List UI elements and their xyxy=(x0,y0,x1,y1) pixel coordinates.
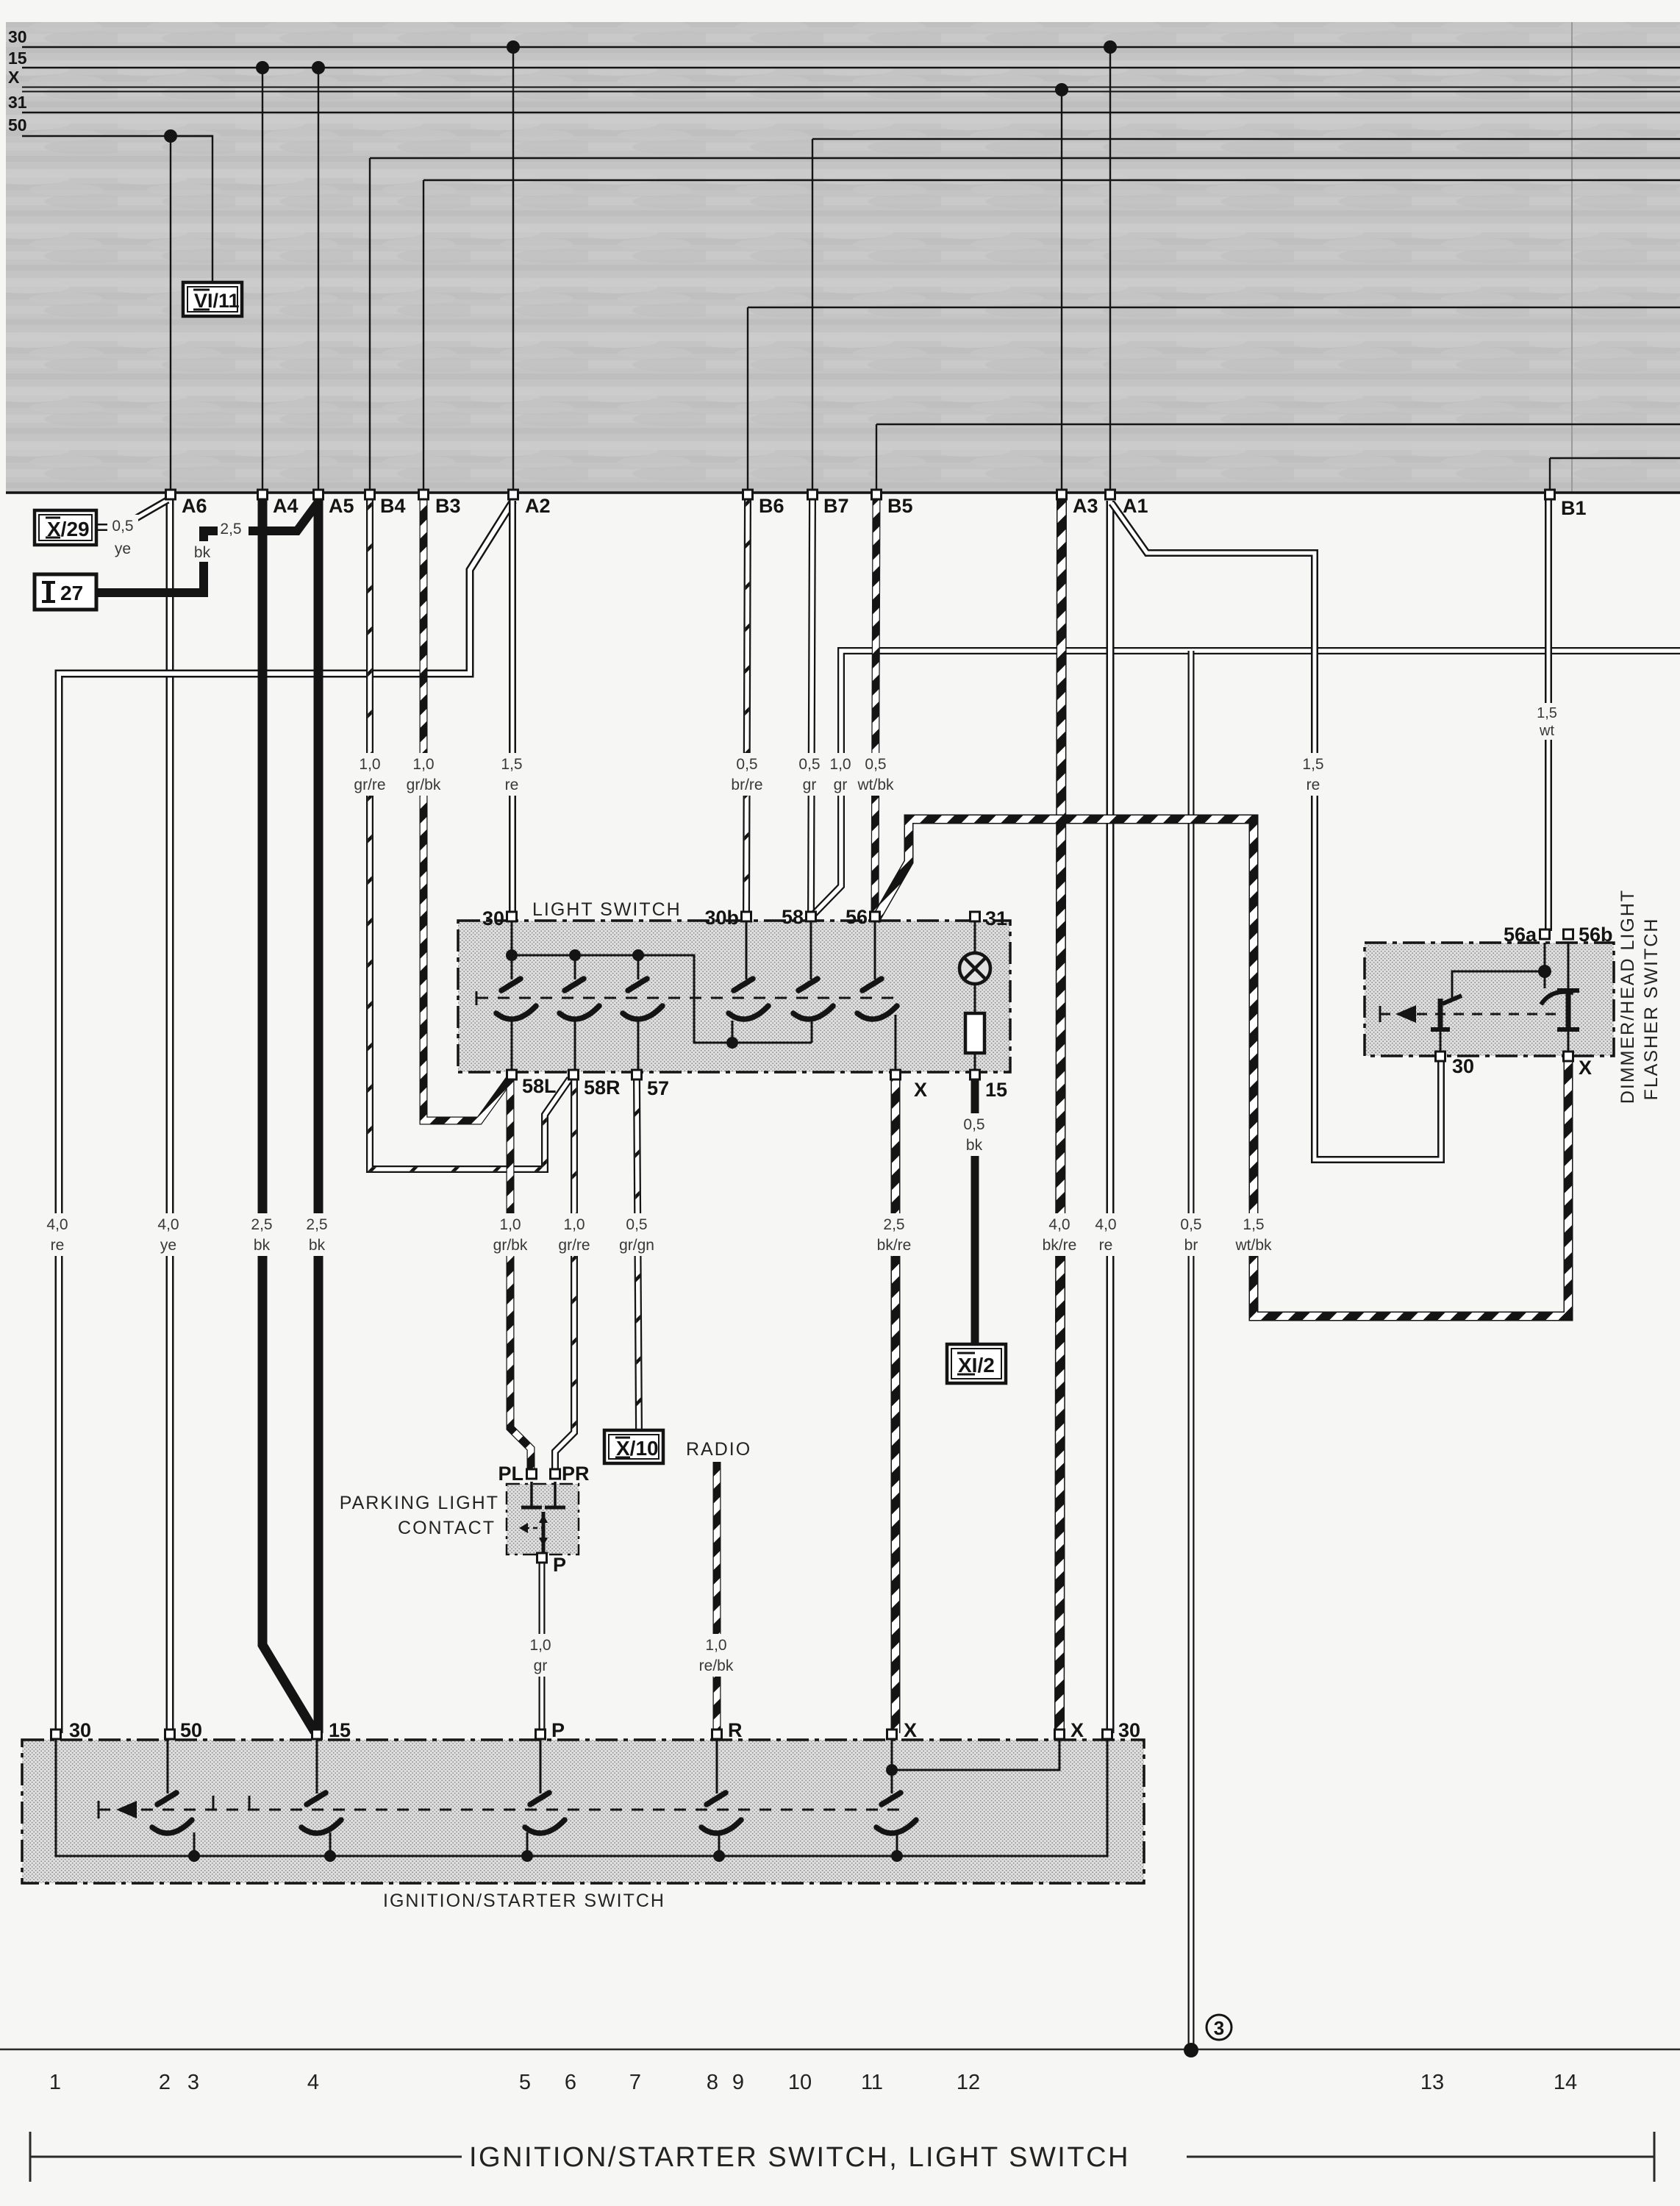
terminal B4 xyxy=(365,490,375,499)
svg-text:2: 2 xyxy=(159,2071,171,2094)
terminal IGN 30b xyxy=(1103,1730,1112,1739)
svg-text:31: 31 xyxy=(8,93,27,112)
svg-text:3: 3 xyxy=(1214,2017,1224,2039)
svg-text:31: 31 xyxy=(985,907,1007,929)
svg-text:bk: bk xyxy=(254,1237,271,1254)
svg-text:15: 15 xyxy=(985,1079,1007,1101)
wire 1,5 wt B1 to 56a xyxy=(1545,499,1552,931)
ballast resistor xyxy=(965,1013,984,1053)
svg-text:re: re xyxy=(1099,1237,1113,1254)
ignition/starter switch box xyxy=(22,1740,1144,1883)
svg-text:3: 3 xyxy=(187,2071,199,2094)
svg-text:gr: gr xyxy=(534,1657,548,1674)
terminal dimmer 56b xyxy=(1564,929,1573,939)
svg-text:ye: ye xyxy=(160,1237,176,1254)
svg-text:bk/re: bk/re xyxy=(1043,1237,1077,1254)
svg-text:bk: bk xyxy=(966,1137,983,1154)
contact stubs top xyxy=(511,955,513,979)
wire 1,0 re/bk RADIO to ignition R xyxy=(713,1462,721,1733)
svg-text:B3: B3 xyxy=(435,495,461,517)
wire 2,5 bk I/27 to A5 xyxy=(96,503,318,593)
wire 2,5 bk A5 to ignition 15 xyxy=(314,499,324,1733)
wire 2,5 bk/re light switch X to ignition X xyxy=(891,1079,901,1733)
wire 1,0 gr/bk B3 to 58L xyxy=(423,499,510,1121)
svg-text:1,0: 1,0 xyxy=(499,1216,521,1233)
svg-text:15: 15 xyxy=(329,1719,351,1741)
connector box X/29 xyxy=(35,510,96,545)
wire 4,0 bk/re A3 to ignition X xyxy=(1059,499,1062,1733)
wire 1,5 wt/bk 56 to dimmer X xyxy=(875,819,1568,1316)
wire 0,5 bk light switch 15 to XI/2 xyxy=(971,1079,979,1344)
wire 1,0 gr feeder to 58 xyxy=(814,651,1680,914)
svg-text:1,0: 1,0 xyxy=(563,1216,585,1233)
terminal dimmer 56a xyxy=(1540,929,1550,939)
svg-text:11: 11 xyxy=(861,2071,883,2094)
connector box XI/2 xyxy=(947,1344,1006,1383)
svg-text:A4: A4 xyxy=(273,495,299,517)
wire B4 drop xyxy=(369,158,371,491)
svg-text:56b: 56b xyxy=(1579,924,1613,946)
svg-text:13: 13 xyxy=(1420,2071,1444,2094)
line B7 feeder xyxy=(812,138,1680,140)
terminal A6 xyxy=(166,490,176,499)
svg-text:PL: PL xyxy=(498,1463,523,1485)
svg-text:4,0: 4,0 xyxy=(157,1216,179,1233)
svg-text:9: 9 xyxy=(732,2071,744,2094)
wire 0,5 br to ground point 3 xyxy=(1188,651,1195,2049)
svg-text:X: X xyxy=(914,1079,927,1101)
light switch box xyxy=(458,921,1010,1072)
junction IGN bus / swP xyxy=(521,1850,533,1862)
svg-text:gr: gr xyxy=(834,777,848,793)
svg-text:br/re: br/re xyxy=(731,777,762,793)
svg-text:4,0: 4,0 xyxy=(46,1216,68,1233)
wire A4 drop from bus 15 xyxy=(262,68,263,491)
connector box X/10 xyxy=(604,1430,663,1463)
wire 1,0 gr/bk 58L to PL xyxy=(510,1079,531,1473)
svg-text:57: 57 xyxy=(647,1077,669,1099)
svg-text:bk/re: bk/re xyxy=(877,1237,912,1254)
fuse box I 27 xyxy=(35,574,96,610)
terminal LS 56 xyxy=(871,912,880,921)
svg-text:0,5: 0,5 xyxy=(865,756,886,773)
wire B1 drop xyxy=(1549,458,1551,491)
svg-text:P: P xyxy=(553,1554,566,1576)
title bracket xyxy=(29,2132,32,2182)
wire 0,5 gr/gn 57 to X/10 xyxy=(637,1079,639,1429)
wire B3 drop xyxy=(423,180,424,491)
svg-text:A5: A5 xyxy=(329,495,354,517)
svg-text:gr: gr xyxy=(803,777,817,793)
wire 2,5 bk A4 to ignition 15 xyxy=(262,499,315,1732)
svg-text:8: 8 xyxy=(707,2071,718,2094)
connector box VI/11 xyxy=(183,282,242,316)
svg-text:PR: PR xyxy=(562,1463,590,1485)
dimmer/head light flasher switch box xyxy=(1365,943,1614,1056)
svg-text:PARKING LIGHT: PARKING LIGHT xyxy=(340,1493,499,1513)
terminal LS 58 xyxy=(807,912,816,921)
svg-text:6: 6 xyxy=(565,2071,576,2094)
wire 0,5 wt/bk B5 to 56 xyxy=(875,499,876,913)
wire 0,5 gr B7 to 58 xyxy=(811,499,812,913)
continuation marker 3 xyxy=(1207,2015,1232,2040)
svg-text:ye: ye xyxy=(115,540,131,557)
terminal B7 xyxy=(808,490,818,499)
terminal B3 xyxy=(419,490,429,499)
wire 1,0 gr P to ignition P xyxy=(539,1563,546,1733)
terminal A4 xyxy=(258,490,268,499)
svg-text:50: 50 xyxy=(8,115,27,135)
wire 0,5 br/re B6 to 30b xyxy=(746,499,748,913)
line B3 feeder xyxy=(423,179,1680,181)
svg-text:re: re xyxy=(505,777,519,793)
svg-text:27: 27 xyxy=(60,582,83,604)
svg-text:X/10: X/10 xyxy=(616,1437,659,1460)
svg-text:A1: A1 xyxy=(1123,495,1148,517)
junction dimmer 56a node xyxy=(1538,965,1551,978)
svg-text:56: 56 xyxy=(846,906,868,928)
wire 4,0 re A2 to ignition 30 xyxy=(59,501,513,1733)
band bottom edge line xyxy=(6,491,1680,494)
svg-text:4: 4 xyxy=(307,2071,319,2094)
svg-text:R: R xyxy=(728,1719,743,1741)
svg-text:1: 1 xyxy=(49,2071,61,2094)
terminal B5 xyxy=(872,490,882,499)
svg-text:56a: 56a xyxy=(1504,924,1537,946)
contact stubs xyxy=(167,1740,169,1793)
svg-text:gr/bk: gr/bk xyxy=(493,1237,528,1254)
wire A1 drop from bus 30 xyxy=(1109,47,1111,491)
svg-text:B7: B7 xyxy=(823,495,849,517)
svg-text:30: 30 xyxy=(1452,1055,1474,1077)
svg-text:X: X xyxy=(8,68,20,87)
svg-text:15: 15 xyxy=(8,49,27,68)
svg-text:1,5: 1,5 xyxy=(1537,705,1557,721)
terminal LS 15 xyxy=(971,1070,980,1079)
dimmer internal wiring xyxy=(1452,943,1545,998)
svg-text:4,0: 4,0 xyxy=(1095,1216,1116,1233)
svg-text:0,5: 0,5 xyxy=(626,1216,647,1233)
junction LS bus / sw2 xyxy=(569,949,581,961)
contact stubs bottom xyxy=(511,1021,513,1071)
svg-text:wt/bk: wt/bk xyxy=(857,777,894,793)
svg-text:1,5: 1,5 xyxy=(1302,756,1323,773)
svg-text:1,0: 1,0 xyxy=(412,756,434,773)
terminal LS 58L xyxy=(507,1070,517,1079)
junction IGN bus / sw15 xyxy=(324,1850,336,1862)
junction bus 30 / A2 xyxy=(507,40,520,54)
svg-text:B5: B5 xyxy=(887,495,913,517)
separator faint vertical xyxy=(1571,22,1573,493)
pilot lamp xyxy=(974,921,976,953)
terminal LS 31 xyxy=(971,912,980,921)
terminal LS 58R xyxy=(569,1070,579,1079)
svg-text:X: X xyxy=(1579,1057,1592,1079)
svg-text:RADIO: RADIO xyxy=(686,1439,751,1460)
junction LS bus2 / sw4 xyxy=(726,1037,738,1049)
wire 0,5 ye X/29 to A6 xyxy=(96,500,168,527)
svg-text:LIGHT SWITCH: LIGHT SWITCH xyxy=(532,899,682,920)
svg-text:58: 58 xyxy=(782,906,804,928)
svg-text:B6: B6 xyxy=(759,495,784,517)
svg-text:5: 5 xyxy=(519,2071,531,2094)
svg-text:IGNITION/STARTER SWITCH, LIG: IGNITION/STARTER SWITCH, LIGHT SWITCH xyxy=(469,2142,1130,2173)
terminal A2 xyxy=(509,490,518,499)
svg-text:bk: bk xyxy=(309,1237,326,1254)
svg-text:B1: B1 xyxy=(1561,497,1587,519)
svg-text:0,5: 0,5 xyxy=(963,1116,984,1133)
svg-text:0,5: 0,5 xyxy=(736,756,757,773)
terminal IGN 50 xyxy=(165,1730,175,1739)
svg-text:DIMMER/HEAD LIGHT: DIMMER/HEAD LIGHT xyxy=(1618,889,1638,1104)
svg-text:wt: wt xyxy=(1539,723,1554,739)
junction dots on buses xyxy=(164,40,1117,143)
junction IGN bus / swR xyxy=(713,1850,725,1862)
terminal PR xyxy=(551,1469,560,1479)
terminal IGN 30 xyxy=(51,1730,61,1739)
svg-text:CONTACT: CONTACT xyxy=(398,1518,496,1538)
parking light contact box xyxy=(507,1484,579,1554)
junction bus X / A3 xyxy=(1055,83,1068,96)
wire A5 drop from bus 15 xyxy=(318,68,319,491)
junction IGN bus / sw50 xyxy=(188,1850,200,1862)
terminal IGN P xyxy=(536,1730,546,1739)
svg-text:wt/bk: wt/bk xyxy=(1234,1237,1272,1254)
grid numbers xyxy=(49,2071,1577,2094)
wire A6 drop from bus 50 xyxy=(170,136,171,491)
switch contacts xyxy=(496,979,536,1019)
junction IGN X jog xyxy=(886,1764,898,1776)
wire 1,5 re A1 to dimmer 30 xyxy=(1112,503,1441,1160)
svg-text:30: 30 xyxy=(69,1719,91,1741)
ground dot for wire 0,5 br xyxy=(1184,2043,1198,2057)
svg-text:0,5: 0,5 xyxy=(112,518,133,535)
junction LS bus / sw3 xyxy=(632,949,644,961)
ignition linkage xyxy=(99,1809,904,1811)
svg-text:IGNITION/STARTER SWITCH: IGNITION/STARTER SWITCH xyxy=(383,1891,665,1911)
svg-text:50: 50 xyxy=(180,1719,202,1741)
wire 1,0 gr/re 58R to PR xyxy=(555,1079,574,1473)
wire 4,0 ye A6 to ignition 50 xyxy=(166,499,174,1733)
wire A2 drop from bus 30 xyxy=(512,47,514,491)
svg-text:2,5: 2,5 xyxy=(883,1216,904,1233)
svg-text:1,0: 1,0 xyxy=(529,1637,551,1654)
ignition X jog xyxy=(892,1740,1059,1770)
svg-text:B4: B4 xyxy=(380,495,406,517)
terminal A3 xyxy=(1057,490,1067,499)
svg-text:A2: A2 xyxy=(525,495,551,517)
light switch internal 30 bus xyxy=(512,921,812,1043)
svg-text:A6: A6 xyxy=(182,495,207,517)
svg-text:XI/2: XI/2 xyxy=(958,1354,995,1377)
svg-text:gr/re: gr/re xyxy=(558,1237,590,1254)
ignition switch contacts xyxy=(152,1793,192,1833)
junction bus 15 / A5 xyxy=(312,61,325,74)
parking light contact internals xyxy=(530,1482,533,1506)
terminal B6 xyxy=(743,490,753,499)
line B4 feeder xyxy=(370,157,1680,159)
terminal LS 30 xyxy=(507,912,517,921)
svg-text:14: 14 xyxy=(1554,2071,1577,2094)
junction LS bus / sw1 xyxy=(506,949,518,961)
terminal IGN X xyxy=(887,1730,897,1739)
svg-text:7: 7 xyxy=(629,2071,641,2094)
svg-text:4,0: 4,0 xyxy=(1048,1216,1070,1233)
svg-text:bk: bk xyxy=(194,544,211,561)
svg-text:12: 12 xyxy=(957,2071,980,2094)
dimmer left contact xyxy=(1443,996,1462,1004)
wire 4,0 re A1 to ignition 30 xyxy=(1107,501,1115,1733)
line B5 feeder xyxy=(876,424,1680,425)
svg-text:58L: 58L xyxy=(522,1075,557,1097)
halftone band xyxy=(6,22,1680,493)
terminal LS X xyxy=(891,1070,901,1079)
svg-text:gr/re: gr/re xyxy=(354,777,385,793)
wire B6 drop xyxy=(747,307,748,491)
ignition internal 30 bus xyxy=(56,1740,1107,1856)
svg-text:X: X xyxy=(904,1719,917,1741)
svg-text:X: X xyxy=(1070,1719,1084,1741)
terminal IGN 15 xyxy=(312,1730,322,1739)
wire 1,5 re A2 to light switch 30 xyxy=(509,501,516,914)
svg-text:re: re xyxy=(51,1237,65,1254)
terminal IGN R xyxy=(712,1730,722,1739)
terminal A5 xyxy=(314,490,324,499)
terminal A1 xyxy=(1106,490,1115,499)
terminal dimmer X xyxy=(1564,1052,1573,1061)
line B1 feeder xyxy=(1550,457,1680,459)
junction IGN bus / swX xyxy=(891,1850,903,1862)
bottom rule xyxy=(0,2049,1680,2051)
dimmer right contact xyxy=(1541,992,1573,1004)
svg-text:1,0: 1,0 xyxy=(359,756,380,773)
terminal P xyxy=(537,1553,547,1563)
svg-text:P: P xyxy=(551,1719,565,1741)
svg-text:58R: 58R xyxy=(584,1077,621,1099)
svg-text:30: 30 xyxy=(482,907,504,929)
line B6 feeder xyxy=(748,307,1680,308)
svg-text:re: re xyxy=(1307,777,1320,793)
svg-text:1,5: 1,5 xyxy=(501,756,522,773)
svg-text:A3: A3 xyxy=(1073,495,1098,517)
terminal IGN X2 xyxy=(1055,1730,1065,1739)
junction bus 15 / A4 xyxy=(256,61,269,74)
wire 1,0 gr/re B4 to 58R xyxy=(370,499,570,1169)
svg-text:gr/bk: gr/bk xyxy=(407,777,441,793)
svg-text:gr/gn: gr/gn xyxy=(619,1237,654,1254)
terminal B1 xyxy=(1545,490,1555,499)
dimmer linkage xyxy=(1380,1013,1564,1015)
svg-text:0,5: 0,5 xyxy=(1180,1216,1201,1233)
svg-text:br: br xyxy=(1184,1237,1198,1254)
wire B5 drop xyxy=(876,424,877,491)
svg-text:FLASHER SWITCH: FLASHER SWITCH xyxy=(1641,918,1662,1101)
svg-text:30: 30 xyxy=(1118,1719,1140,1741)
svg-text:re/bk: re/bk xyxy=(699,1657,734,1674)
wire A3 drop from bus X xyxy=(1061,90,1062,491)
junction bus 50 / A6 xyxy=(164,129,177,143)
terminal dimmer 30 xyxy=(1436,1052,1445,1061)
svg-text:1,5: 1,5 xyxy=(1243,1216,1264,1233)
terminal PL xyxy=(527,1469,537,1479)
terminal LS 57 xyxy=(632,1070,642,1079)
svg-text:2,5: 2,5 xyxy=(306,1216,327,1233)
wire B7 drop xyxy=(812,139,813,491)
svg-text:2,5: 2,5 xyxy=(220,521,241,538)
linkage dashed xyxy=(476,997,898,999)
junction bus 30 / A1 xyxy=(1104,40,1117,54)
terminal LS 30b xyxy=(742,912,751,921)
svg-text:1,0: 1,0 xyxy=(705,1637,726,1654)
svg-text:30: 30 xyxy=(8,27,27,46)
svg-text:30b: 30b xyxy=(704,907,739,929)
svg-text:10: 10 xyxy=(788,2071,812,2094)
svg-text:2,5: 2,5 xyxy=(251,1216,272,1233)
svg-text:1,0: 1,0 xyxy=(829,756,851,773)
wire VI/11 branch xyxy=(171,136,212,281)
svg-text:0,5: 0,5 xyxy=(798,756,820,773)
